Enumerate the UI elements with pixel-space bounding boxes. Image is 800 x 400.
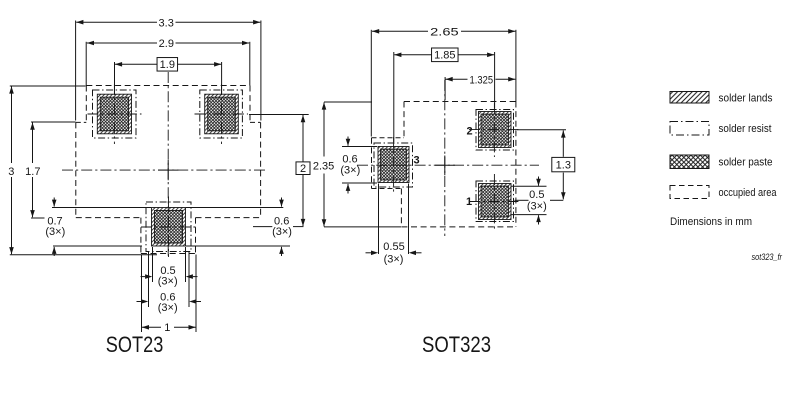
dim 0.6 extension lines right bbox=[186, 207, 283, 209]
dim 1.9 line and arrows bbox=[115, 63, 157, 65]
svg-text:0.5: 0.5 bbox=[529, 189, 544, 201]
dim 3 extension lines bbox=[10, 85, 86, 87]
svg-text:2: 2 bbox=[300, 163, 306, 175]
svg-text:solder paste: solder paste bbox=[719, 156, 773, 168]
SOT23 occupied area right edge bbox=[260, 122, 262, 217]
SOT323 solder resist pad 1 (bottom-right) bbox=[476, 181, 514, 222]
dim 3.3 line and arrows bbox=[76, 21, 157, 23]
SOT23 occupied area upper-left edge bbox=[85, 86, 87, 123]
svg-text:sot323_fr: sot323_fr bbox=[752, 252, 783, 263]
svg-text:(3×): (3×) bbox=[272, 226, 292, 238]
dim 0.6 arrows right bbox=[281, 198, 283, 207]
svg-text:2.35: 2.35 bbox=[313, 160, 334, 172]
svg-text:(3×): (3×) bbox=[45, 226, 65, 238]
dim 2 line and arrows bbox=[302, 115, 304, 162]
svg-text:1.7: 1.7 bbox=[25, 166, 40, 178]
dim 1.3 line and arrows bbox=[562, 130, 564, 156]
SOT23 pad 3 land and paste (bottom) bbox=[152, 208, 186, 247]
dim 0.6 arrows SOT323 bbox=[347, 137, 349, 146]
SOT23 occupied area top edge bbox=[86, 85, 250, 87]
svg-text:2.65: 2.65 bbox=[430, 27, 459, 39]
svg-text:solder resist: solder resist bbox=[719, 123, 772, 135]
dim label 1.3 boxed bbox=[552, 157, 575, 171]
svg-text:Dimensions in mm: Dimensions in mm bbox=[670, 216, 752, 228]
svg-text:1.325: 1.325 bbox=[470, 75, 494, 87]
SOT23 pad 1 land and paste (top-left) bbox=[97, 94, 131, 134]
SOT23 horizontal centre line bbox=[62, 169, 266, 171]
SOT323 pad 3 land and paste (left) bbox=[378, 147, 409, 183]
svg-text:occupied area: occupied area bbox=[719, 187, 778, 199]
svg-text:2.9: 2.9 bbox=[159, 38, 174, 50]
dim 1.325 extension line bbox=[444, 77, 446, 100]
SOT323 occupied area top edge bbox=[404, 101, 516, 103]
SOT23 occupied area bottom edge bbox=[141, 253, 196, 255]
svg-text:3: 3 bbox=[413, 154, 419, 166]
dim 1.7 extension lines bbox=[31, 121, 76, 123]
dim 1.325 line and arrows bbox=[446, 78, 468, 80]
SOT323 occupied area notch top bbox=[372, 137, 405, 139]
legend solder paste swatch bbox=[670, 155, 709, 169]
svg-text:1.9: 1.9 bbox=[160, 59, 175, 71]
SOT323 centre cross mark bbox=[435, 156, 455, 176]
SOT23 occupied area lower-right step bbox=[196, 217, 261, 219]
SOT23 occupied area lower-right edge bbox=[195, 218, 197, 254]
SOT23 pad 3 centre cross bbox=[141, 226, 196, 228]
svg-text:SOT23: SOT23 bbox=[106, 332, 164, 357]
SOT323 occupied area upper-left edge bbox=[403, 102, 405, 138]
SOT23 solder resist pad 3 (bottom) bbox=[146, 202, 191, 252]
dim label 1.85 boxed bbox=[432, 48, 459, 62]
SOT323 occupied area notch left edge bbox=[371, 138, 373, 189]
dim 0.6 bottom extension lines bbox=[148, 252, 150, 307]
SOT23 vertical centre line bbox=[167, 72, 169, 257]
SOT323 vertical centre line bbox=[444, 80, 446, 236]
dim 1.3 extension lines bbox=[517, 129, 566, 131]
SOT323 solder resist pad 2 (top-right) bbox=[476, 110, 514, 151]
legend solder lands swatch bbox=[670, 92, 709, 104]
dim 0.6 bottom arrows bbox=[137, 301, 142, 303]
SOT323 occupied area lower-left edge bbox=[400, 189, 402, 227]
SOT23 occupied area lower-left step bbox=[76, 217, 141, 219]
dim 2.35 extension lines bbox=[324, 101, 372, 103]
dim 0.5 bottom extension lines bbox=[152, 247, 154, 282]
dim 2.65 extension lines bbox=[370, 30, 372, 137]
SOT23 pad 1 centre cross bbox=[88, 113, 142, 115]
dim 3.3 extension lines bbox=[75, 21, 77, 121]
svg-text:(3×): (3×) bbox=[158, 302, 178, 314]
svg-text:2: 2 bbox=[466, 125, 472, 137]
SOT23 occupied area right step bbox=[250, 121, 261, 123]
svg-text:3: 3 bbox=[8, 166, 14, 178]
dim 2.35 line and arrows bbox=[323, 102, 325, 156]
dim 0.7 arrows bbox=[53, 198, 55, 207]
svg-text:(3×): (3×) bbox=[340, 164, 360, 176]
SOT23 occupied area left step bbox=[76, 121, 87, 123]
legend occupied area swatch bbox=[670, 186, 709, 199]
SOT23 solder resist pad 1 (top-left) bbox=[93, 90, 137, 138]
dim 0.7 extension lines left bbox=[52, 207, 151, 209]
dim 0.5 arrows SOT323 bbox=[538, 177, 540, 186]
SOT323 occupied area bottom edge bbox=[401, 226, 516, 228]
SOT23 pad 2 land and paste (top-right) bbox=[205, 94, 239, 134]
svg-text:3.3: 3.3 bbox=[159, 17, 174, 29]
dim 0.55 extension lines bbox=[378, 184, 380, 255]
dim 1.9 extension lines bbox=[114, 62, 116, 94]
dim 1.85 line and arrows bbox=[394, 54, 431, 56]
dim 0.55 arrows bbox=[366, 252, 372, 254]
svg-text:0.55: 0.55 bbox=[383, 241, 404, 253]
SOT323 horizontal centre line bbox=[357, 164, 539, 166]
dim 0.5 bottom arrows bbox=[141, 276, 146, 278]
SOT23 pad 2 centre cross bbox=[195, 113, 249, 115]
svg-text:(3×): (3×) bbox=[384, 253, 404, 265]
SOT323 pad 2 centre cross bbox=[469, 129, 520, 131]
SOT323 occupied area notch bottom bbox=[372, 188, 402, 190]
SOT323 occupied area right edge bbox=[515, 102, 517, 227]
SOT23 occupied area left edge bbox=[75, 122, 77, 217]
SOT323 solder resist pad 3 (left) bbox=[374, 143, 413, 187]
svg-text:1: 1 bbox=[466, 196, 472, 208]
svg-text:(3×): (3×) bbox=[158, 275, 178, 287]
dim 3 line and arrows bbox=[11, 86, 13, 163]
dim 1 line and arrows bbox=[142, 326, 162, 328]
dim 0.5 extension lines SOT323 bbox=[511, 185, 547, 187]
dim label 1.9 boxed bbox=[157, 58, 178, 72]
dim 1.85 extension lines bbox=[393, 52, 395, 142]
svg-text:(3×): (3×) bbox=[527, 200, 547, 212]
dim 2.9 line and arrows bbox=[87, 42, 157, 44]
svg-text:solder lands: solder lands bbox=[719, 92, 773, 104]
dim 2 extension lines bbox=[249, 114, 309, 116]
dim 0.6 extension lines SOT323 bbox=[342, 146, 377, 148]
svg-text:1.3: 1.3 bbox=[556, 159, 571, 171]
legend solder resist swatch bbox=[670, 122, 709, 136]
SOT323 pad 1 land and paste (bottom-right) bbox=[479, 184, 512, 220]
SOT23 solder resist pad 2 (top-right) bbox=[200, 90, 243, 138]
svg-text:SOT323: SOT323 bbox=[422, 332, 491, 357]
SOT323 pad 3 centre cross bbox=[393, 137, 395, 193]
dim 1 extension lines bbox=[141, 255, 143, 333]
dim 2.65 line and arrows bbox=[372, 30, 428, 32]
dim 1.7 line and arrows bbox=[32, 123, 34, 164]
SOT323 pad 1 centre cross bbox=[469, 201, 520, 203]
SOT23 occupied area upper-right edge bbox=[249, 86, 251, 123]
SOT23 centre cross mark bbox=[158, 160, 178, 180]
SOT323 pad 2 land and paste (top-right) bbox=[479, 112, 512, 148]
dim 2.9 extension lines bbox=[85, 42, 87, 86]
SOT23 occupied area lower-left edge bbox=[140, 218, 142, 254]
svg-text:1.85: 1.85 bbox=[434, 50, 455, 62]
svg-text:1: 1 bbox=[164, 322, 170, 334]
dim label 2 boxed bbox=[296, 162, 310, 175]
